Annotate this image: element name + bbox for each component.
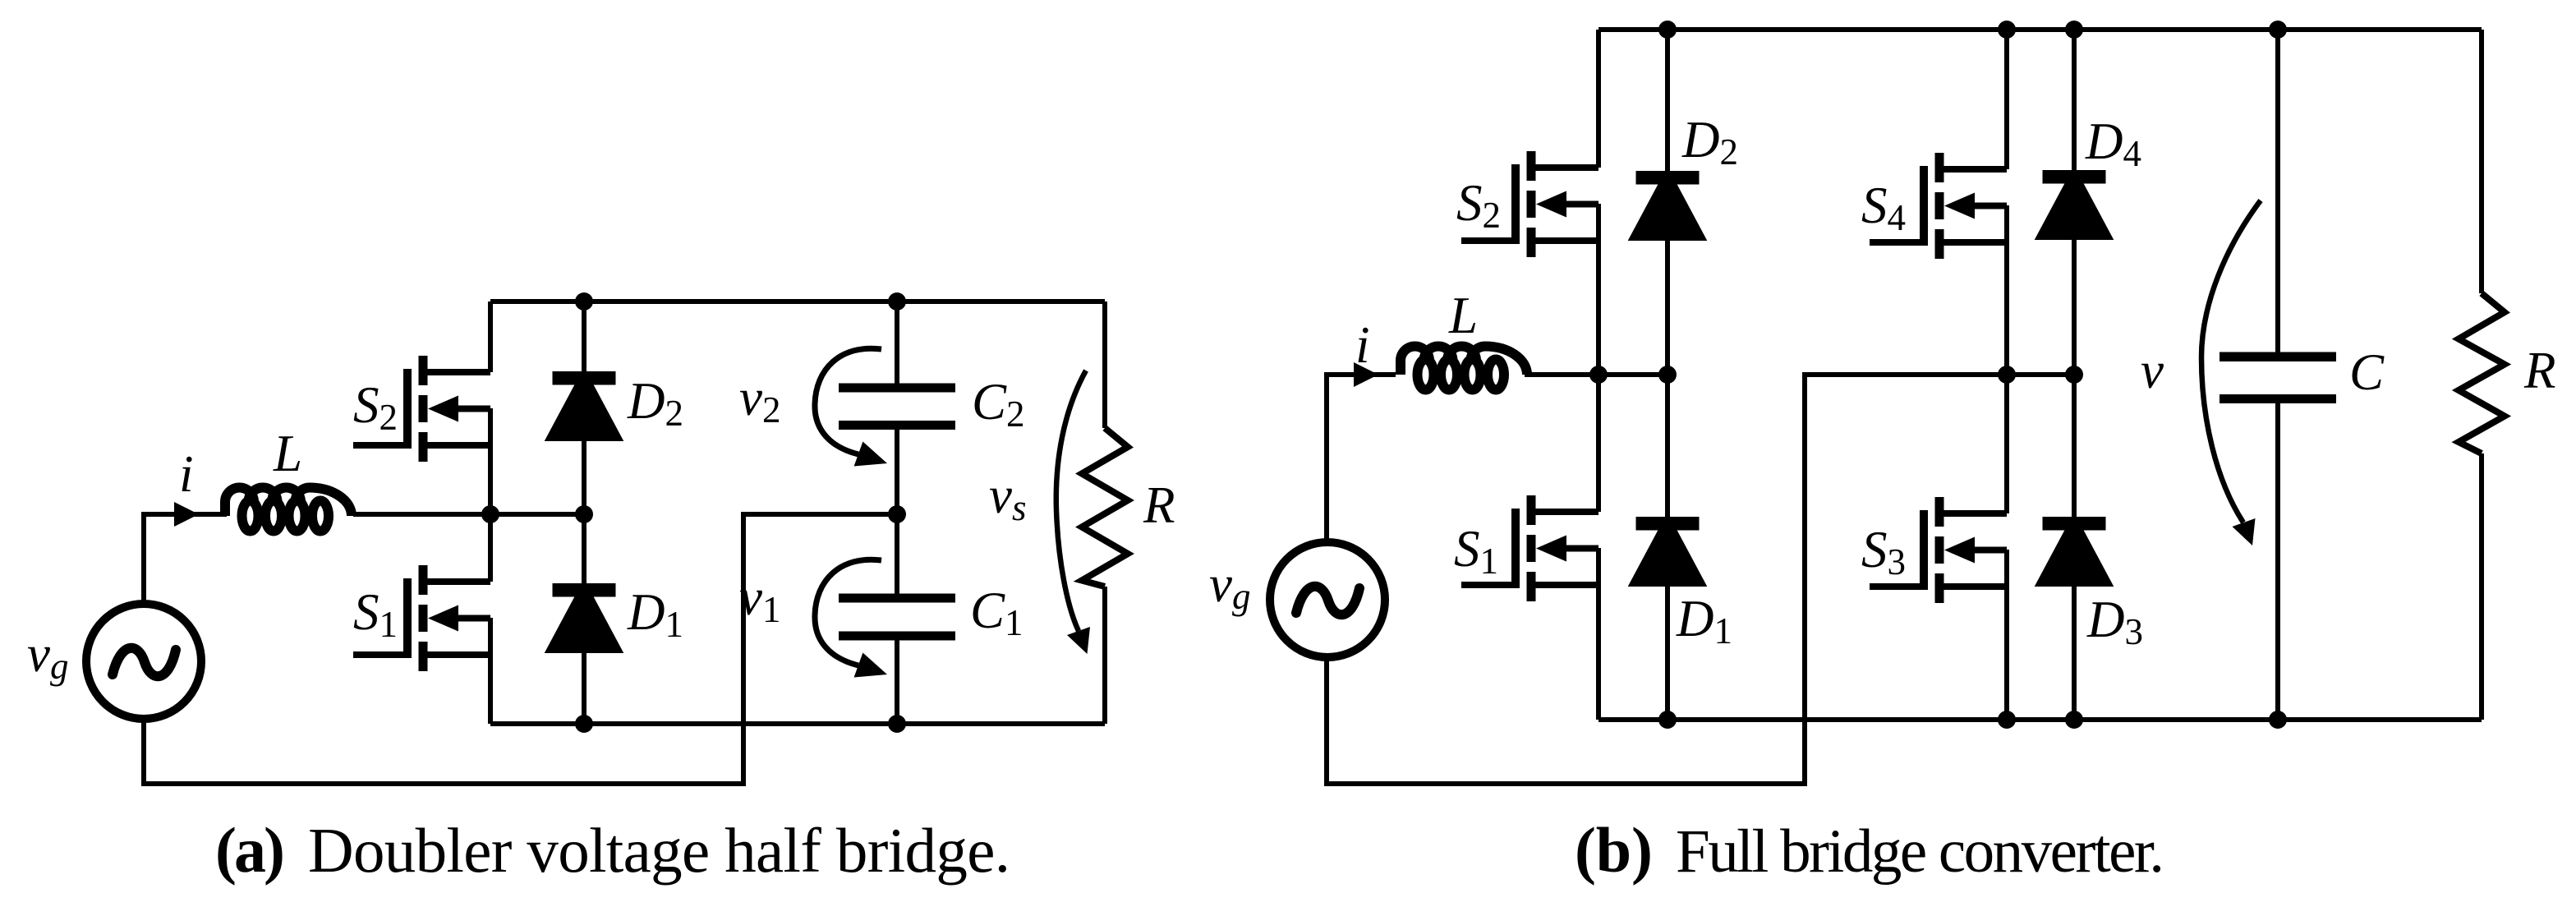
current arrow i (a) bbox=[174, 502, 199, 527]
svg-text:C2: C2 bbox=[972, 373, 1025, 435]
wire S2 source to node A (b) bbox=[1596, 204, 1601, 375]
wire S1 source to bottom rail (b) bbox=[1596, 548, 1601, 720]
wire D2 branch (a) bbox=[582, 301, 586, 514]
wire inductor to switching node (a) bbox=[353, 512, 584, 517]
wire resistor R to bottom rail (b) bbox=[2479, 453, 2484, 720]
node B / S leg (b) bbox=[1998, 366, 2016, 384]
wire capacitor C to bottom rail (b) bbox=[2275, 403, 2280, 720]
svg-text:D2: D2 bbox=[1681, 111, 1738, 173]
svg-text:S4: S4 bbox=[1861, 177, 1906, 238]
wire S1 source to bottom rail (a) bbox=[488, 618, 493, 724]
wire top rail (b) bbox=[1598, 27, 2482, 32]
diode D1 (a) bbox=[549, 584, 620, 651]
wire vg positive to inductor (a) bbox=[144, 514, 227, 601]
svg-text:i: i bbox=[1355, 316, 1370, 374]
svg-text:C: C bbox=[2349, 343, 2385, 401]
svg-text:Doubler voltage half bridge.: Doubler voltage half bridge. bbox=[308, 815, 1010, 886]
wire D2 branch (b) bbox=[1665, 30, 1670, 375]
wire C1 to bottom rail (a) bbox=[895, 640, 899, 724]
svg-text:Full bridge converter.: Full bridge converter. bbox=[1676, 817, 2164, 886]
wire C2 to C1 midpoint (a) bbox=[895, 430, 899, 594]
node A / S leg (b) bbox=[1589, 366, 1608, 384]
wire top rail to capacitor C (b) bbox=[2275, 30, 2280, 353]
wire S4 source to node B (b) bbox=[2004, 205, 2009, 375]
svg-text:C1: C1 bbox=[970, 582, 1023, 643]
capacitor C2 (a) bbox=[839, 384, 955, 430]
wire S4 drain riser (b) bbox=[2004, 30, 2009, 169]
svg-text:D1: D1 bbox=[1676, 590, 1732, 651]
wire D1 branch (a) bbox=[582, 514, 586, 724]
svg-text:S1: S1 bbox=[1454, 520, 1498, 582]
wire D3 branch (b) bbox=[2072, 375, 2077, 720]
node A / D leg (b) bbox=[1658, 366, 1677, 384]
node bottom rail / S3 (b) bbox=[1998, 711, 2016, 729]
capacitor C1 (a) bbox=[839, 594, 955, 641]
voltage source vg (a) bbox=[86, 604, 201, 719]
inductor L (b) bbox=[1401, 347, 1527, 390]
capacitor C (b) bbox=[2219, 352, 2336, 404]
wire bottom rail (a) bbox=[490, 721, 1105, 726]
diode D2 (a) bbox=[549, 372, 620, 439]
wire top rail to resistor R (a) bbox=[1102, 301, 1107, 428]
wire inductor to bridge node A (b) bbox=[1525, 372, 1667, 377]
resistor R (b) bbox=[2459, 293, 2505, 453]
svg-text:(b): (b) bbox=[1575, 814, 1653, 886]
svg-text:i: i bbox=[179, 445, 194, 503]
node top rail / D4 (b) bbox=[2065, 21, 2083, 39]
svg-text:S2: S2 bbox=[1456, 174, 1501, 236]
wire S2 drain riser (b) bbox=[1596, 30, 1601, 168]
voltage source vg (b) bbox=[1270, 542, 1385, 657]
wire D4 branch (b) bbox=[2072, 30, 2077, 375]
wire node B to S3 drain (b) bbox=[2004, 375, 2009, 513]
svg-text:v: v bbox=[2141, 342, 2164, 399]
svg-text:L: L bbox=[1448, 287, 1478, 344]
wire node to S1 drain (a) bbox=[488, 514, 493, 582]
svg-text:D3: D3 bbox=[2086, 591, 2143, 652]
arrow v (b) bbox=[2201, 200, 2261, 545]
node switching / D (a) bbox=[575, 505, 593, 523]
wire D1 branch (b) bbox=[1665, 375, 1670, 720]
wire node B to vg return (b) bbox=[1327, 375, 2074, 784]
wire top rail to resistor R (b) bbox=[2479, 30, 2484, 293]
svg-text:D2: D2 bbox=[627, 372, 683, 434]
wire resistor R to bottom rail (a) bbox=[1102, 587, 1107, 724]
node top rail / C (b) bbox=[2269, 21, 2287, 39]
node capacitor midpoint (a) bbox=[888, 505, 906, 523]
wire node A to S1 drain (b) bbox=[1596, 375, 1601, 512]
node top rail / D2 (a) bbox=[575, 292, 593, 311]
svg-text:S3: S3 bbox=[1861, 521, 1906, 582]
svg-text:(a): (a) bbox=[215, 814, 285, 886]
diode D1 (b) bbox=[1632, 518, 1704, 584]
node top rail / C2 (a) bbox=[888, 292, 906, 311]
node top rail / D2 (b) bbox=[1658, 21, 1677, 39]
diode D2 (b) bbox=[1632, 172, 1704, 238]
transistor S1 (b) bbox=[1461, 495, 1598, 601]
transistor S2 (b) bbox=[1461, 151, 1598, 257]
node top rail / S4 (b) bbox=[1998, 21, 2016, 39]
transistor S1 (a) bbox=[353, 565, 490, 671]
wire top rail (a) bbox=[490, 299, 1105, 304]
svg-text:v2: v2 bbox=[739, 369, 780, 430]
arrow vs (a) bbox=[1056, 371, 1090, 654]
node bottom rail / C (b) bbox=[2269, 711, 2287, 729]
wire S2 drain riser (a) bbox=[488, 301, 493, 372]
svg-text:L: L bbox=[273, 425, 302, 482]
wire bottom rail (b) bbox=[1598, 717, 2482, 722]
svg-text:R: R bbox=[1143, 476, 1175, 534]
resistor R (a) bbox=[1082, 428, 1128, 587]
wire vg positive to inductor (b) bbox=[1327, 375, 1396, 540]
node bottom rail / D3 (b) bbox=[2065, 711, 2083, 729]
diode D3 (b) bbox=[2039, 518, 2110, 584]
svg-text:D1: D1 bbox=[627, 583, 683, 645]
transistor S3 (b) bbox=[1870, 497, 2007, 603]
node bottom rail / C1 (a) bbox=[888, 715, 906, 733]
node bottom rail / D1 (b) bbox=[1658, 711, 1677, 729]
transistor S2 (a) bbox=[353, 356, 490, 462]
node bottom rail / D1 (a) bbox=[575, 715, 593, 733]
node switching / S (a) bbox=[481, 505, 499, 523]
inductor L (a) bbox=[225, 488, 352, 532]
wire S2 source to node (a) bbox=[488, 408, 493, 514]
wire top rail to C2 (a) bbox=[895, 301, 899, 384]
diode D4 (b) bbox=[2039, 171, 2110, 237]
caption (a) bbox=[215, 814, 1010, 886]
svg-text:S2: S2 bbox=[353, 376, 398, 438]
arrow v2 (a) bbox=[815, 348, 887, 466]
wire capacitor midpoint return to vg (a) bbox=[144, 514, 897, 784]
svg-text:vg: vg bbox=[27, 625, 68, 687]
svg-text:vs: vs bbox=[989, 467, 1026, 528]
arrow v1 (a) bbox=[815, 559, 887, 677]
svg-text:D4: D4 bbox=[2085, 113, 2141, 174]
svg-text:R: R bbox=[2523, 342, 2555, 399]
current arrow i (b) bbox=[1354, 362, 1378, 387]
caption (b) bbox=[1575, 814, 2164, 886]
wire S3 source to bottom rail (b) bbox=[2004, 550, 2009, 720]
transistor S4 (b) bbox=[1870, 153, 2007, 259]
svg-text:S1: S1 bbox=[353, 583, 398, 645]
svg-text:vg: vg bbox=[1209, 555, 1250, 617]
node B / D leg (b) bbox=[2065, 366, 2083, 384]
